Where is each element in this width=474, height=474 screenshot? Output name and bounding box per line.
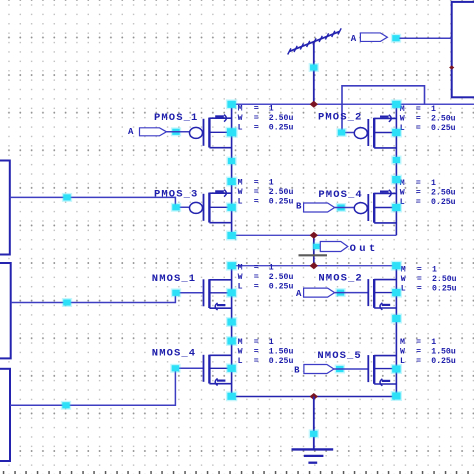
- node PMOS_3 gate: [171, 203, 181, 212]
- node NMOS_5 bulk: [391, 364, 402, 374]
- wire left bus upper: [231, 104, 233, 235]
- params NMOS_5: [400, 338, 456, 366]
- box module port 3 (clipped): [0, 369, 10, 461]
- svg-text:M=1: M=1: [238, 179, 274, 188]
- svg-text:W=2.50u: W=2.50u: [400, 114, 456, 123]
- transistor PMOS_3: [190, 190, 232, 223]
- wire right bus upper: [395, 104, 397, 235]
- pin on top-right box: [449, 65, 454, 69]
- svg-text:L=0.25u: L=0.25u: [238, 123, 294, 132]
- node NMOS_4 gate: [170, 364, 180, 373]
- svg-text:PMOS_1: PMOS_1: [154, 112, 198, 124]
- node left bus / VDD rail: [226, 99, 237, 109]
- params PMOS_1: [238, 104, 294, 132]
- params NMOS_4: [238, 338, 294, 366]
- svg-text:B: B: [296, 202, 302, 212]
- node PMOS_4 drain wire: [391, 175, 402, 185]
- svg-text:L=0.25u: L=0.25u: [238, 198, 294, 207]
- node PMOS_4 bulk: [391, 203, 402, 213]
- junction PMOS drain rail: [310, 232, 318, 239]
- wire right bus lower: [395, 266, 397, 397]
- svg-text:NMOS_5: NMOS_5: [317, 350, 361, 362]
- params PMOS_3: [238, 179, 294, 207]
- node A port: [391, 34, 401, 43]
- node PMOS_1 gate: [171, 127, 181, 136]
- wire Out rail: [232, 265, 397, 267]
- svg-text:M=1: M=1: [400, 179, 436, 188]
- svg-text:L=0.25u: L=0.25u: [400, 357, 456, 366]
- gray mark near Out: [299, 254, 328, 256]
- box module port 1 (clipped): [0, 161, 10, 255]
- svg-text:L=0.25u: L=0.25u: [400, 124, 456, 133]
- node NMOS_2 gate: [335, 288, 345, 297]
- svg-text:W=2.50u: W=2.50u: [401, 275, 457, 284]
- port B (PMOS_4): [304, 203, 335, 212]
- wire B port to PMOS_4 gate: [335, 207, 356, 209]
- wire VDD stem: [313, 42, 315, 105]
- node right bus / out rail: [391, 261, 402, 271]
- wire net from box1 to PMOS_3 gate: [10, 197, 190, 207]
- power symbol VDD: [288, 28, 342, 54]
- node NMOS_1 bulk: [226, 288, 237, 298]
- wire net from box3 to NMOS_4 gate: [10, 368, 204, 405]
- svg-text:W=2.50u: W=2.50u: [238, 188, 294, 197]
- wire A to box: [400, 37, 452, 39]
- svg-text:M=1: M=1: [401, 265, 437, 274]
- box instance top-right (clipped): [452, 2, 474, 97]
- ground: [292, 397, 334, 463]
- node left bus / drain rail: [226, 231, 237, 241]
- transistor NMOS_4: [204, 355, 232, 386]
- params NMOS_2: [401, 265, 457, 293]
- wire VDD rail: [232, 103, 474, 105]
- svg-text:M=1: M=1: [238, 338, 274, 347]
- svg-text:M=1: M=1: [400, 338, 436, 347]
- svg-text:B: B: [294, 366, 300, 376]
- junction VDD rail: [310, 101, 318, 108]
- junction Out rail: [310, 262, 318, 269]
- node Out stub: [312, 242, 321, 250]
- node PMOS_1 bulk: [225, 127, 237, 138]
- wire PMOS_2 gate loop: [342, 86, 425, 133]
- svg-text:PMOS_4: PMOS_4: [318, 189, 362, 201]
- node right bus / ground rail: [391, 391, 402, 401]
- transistor NMOS_2: [368, 279, 396, 310]
- svg-text:A: A: [351, 34, 357, 44]
- wire to Out port: [314, 245, 321, 247]
- svg-text:Out: Out: [350, 243, 379, 255]
- transistor PMOS_2: [354, 115, 396, 148]
- port B (NMOS_5): [304, 365, 334, 374]
- node PMOS_1 source wire: [226, 157, 236, 166]
- port A (top): [360, 33, 387, 42]
- node NMOS_2 bulk: [391, 288, 402, 298]
- port A (NMOS_2): [304, 288, 335, 297]
- wire left bus lower: [231, 266, 233, 397]
- svg-text:NMOS_1: NMOS_1: [152, 273, 196, 285]
- svg-text:A: A: [296, 289, 302, 299]
- params NMOS_1: [238, 263, 294, 291]
- node PMOS_2 bulk: [391, 128, 402, 138]
- wire A port to NMOS_2 gate: [335, 292, 369, 294]
- svg-text:M=1: M=1: [238, 104, 274, 113]
- svg-text:NMOS_2: NMOS_2: [318, 273, 362, 285]
- node PMOS_3 bulk: [226, 202, 237, 212]
- port Out: [320, 242, 348, 252]
- junction ground rail: [310, 393, 318, 400]
- wire PMOS drain rail: [232, 234, 397, 236]
- wire net from box2 to NMOS_1 gate: [11, 293, 204, 303]
- svg-text:M=1: M=1: [400, 105, 436, 114]
- node NMOS_2 source wire: [391, 314, 402, 324]
- box module port 2 (clipped): [0, 263, 11, 358]
- svg-text:W=1.50u: W=1.50u: [400, 348, 456, 357]
- node PMOS_2 gate: [336, 128, 346, 137]
- node on box3 net: [61, 401, 71, 410]
- transistor NMOS_1: [204, 279, 232, 310]
- wire ground rail: [232, 396, 397, 398]
- params PMOS_2: [400, 105, 456, 133]
- svg-text:L=0.25u: L=0.25u: [401, 284, 457, 293]
- node NMOS_4 bulk: [226, 363, 237, 373]
- svg-text:W=1.50u: W=1.50u: [238, 348, 294, 357]
- node right bus / VDD rail: [391, 99, 402, 109]
- node NMOS_1 gate: [171, 288, 181, 297]
- node on box1 net: [62, 193, 72, 202]
- transistor PMOS_4: [354, 190, 396, 223]
- node PMOS_2 source wire: [391, 156, 401, 165]
- node NMOS_4 drain wire: [226, 336, 237, 346]
- node PMOS_4 gate: [336, 203, 346, 212]
- svg-text:W=2.50u: W=2.50u: [400, 189, 456, 198]
- transistor NMOS_5: [368, 355, 396, 386]
- wire B port to NMOS_5 gate: [334, 368, 368, 370]
- svg-text:L=0.25u: L=0.25u: [238, 357, 294, 366]
- node NMOS_1 source wire: [226, 317, 237, 327]
- svg-text:W=2.50u: W=2.50u: [238, 114, 294, 123]
- node on box2 net: [62, 298, 72, 307]
- node NMOS_5 gate: [335, 365, 345, 374]
- wire PMOS_2 gate stub: [342, 132, 355, 134]
- node left bus / ground rail: [226, 391, 237, 401]
- node PMOS_3 drain wire: [226, 177, 237, 187]
- svg-text:A: A: [128, 127, 134, 137]
- svg-text:PMOS_2: PMOS_2: [318, 111, 362, 123]
- svg-text:NMOS_4: NMOS_4: [152, 348, 196, 360]
- params PMOS_4: [400, 179, 456, 207]
- wire out stub: [314, 245, 321, 247]
- svg-text:L=0.25u: L=0.25u: [400, 198, 456, 207]
- wire out vertical: [313, 235, 315, 265]
- node VDD stem handle: [309, 63, 319, 72]
- node ground stem handle: [309, 429, 319, 438]
- svg-text:L=0.25u: L=0.25u: [238, 282, 294, 291]
- svg-text:PMOS_3: PMOS_3: [154, 189, 198, 201]
- transistor PMOS_1: [190, 115, 232, 148]
- wire A port to PMOS_1 gate: [167, 131, 191, 133]
- node left bus / out rail: [226, 261, 237, 271]
- port A (PMOS_1): [140, 128, 167, 136]
- svg-text:W=2.50u: W=2.50u: [238, 273, 294, 282]
- svg-text:M=1: M=1: [238, 263, 274, 272]
